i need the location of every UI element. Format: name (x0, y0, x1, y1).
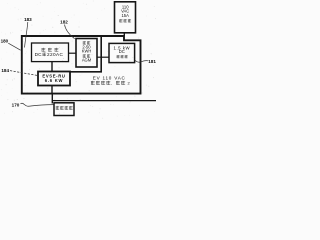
svg-text:183: 183 (24, 17, 32, 22)
wire inverter to battery (69, 52, 77, 54)
wire battery to charger (97, 56, 109, 58)
svg-text:DC: DC (119, 49, 125, 54)
svg-text:AGM: AGM (82, 58, 92, 63)
svg-text:KWH: KWH (82, 48, 92, 53)
caption 充电装置，等级2 (charging device, level 2) (91, 81, 95, 85)
svg-text:170: 170 (12, 102, 20, 107)
svg-text:EV 110 VAC: EV 110 VAC (93, 76, 126, 81)
label 逆变器 (inverter) (42, 48, 46, 52)
svg-text:15A: 15A (122, 13, 130, 18)
leader 183 (25, 22, 28, 48)
svg-text:181: 181 (148, 59, 156, 64)
EV box 电动车辆 (electric vehicle) (54, 103, 74, 116)
svg-text:184: 184 (1, 68, 9, 73)
label 壁插座 (wall socket) (119, 19, 122, 22)
charger box 1.5kW DC (109, 43, 135, 62)
wire from wall outlet down to enclosure (123, 33, 125, 36)
wire enclosure bottom down to EV box (51, 94, 53, 104)
battery box (76, 39, 97, 68)
leader 182 (65, 25, 75, 39)
wall outlet box 110VAC (115, 2, 136, 33)
label 锂或 (lithium or) (83, 54, 86, 57)
leader 181 (135, 60, 148, 62)
svg-text:182: 182 (60, 19, 68, 24)
wire inverter down to EVSE-RU (51, 62, 53, 72)
leader 184 dashed (10, 71, 38, 76)
inverter box (32, 43, 69, 62)
leader 180 (8, 43, 20, 50)
svg-text:2: 2 (127, 80, 130, 85)
svg-text:DC: DC (35, 52, 43, 57)
svg-text:180: 180 (1, 38, 9, 43)
leader 170 (21, 103, 54, 106)
EVSE-RU box (38, 72, 70, 86)
svg-text:220AC: 220AC (47, 52, 64, 57)
wire EVSE-RU down to enclosure bottom (51, 86, 53, 94)
label 充电器 (charger) (117, 55, 120, 58)
long cable line to right (52, 100, 156, 102)
label 电池 (battery) (83, 41, 86, 44)
outer enclosure box 180 with stepped top-right corner (22, 36, 141, 94)
svg-text:6.6 KW: 6.6 KW (45, 78, 63, 83)
svg-text:,: , (111, 81, 112, 86)
wire from top edge down then left to EVSE-RU (70, 37, 101, 72)
